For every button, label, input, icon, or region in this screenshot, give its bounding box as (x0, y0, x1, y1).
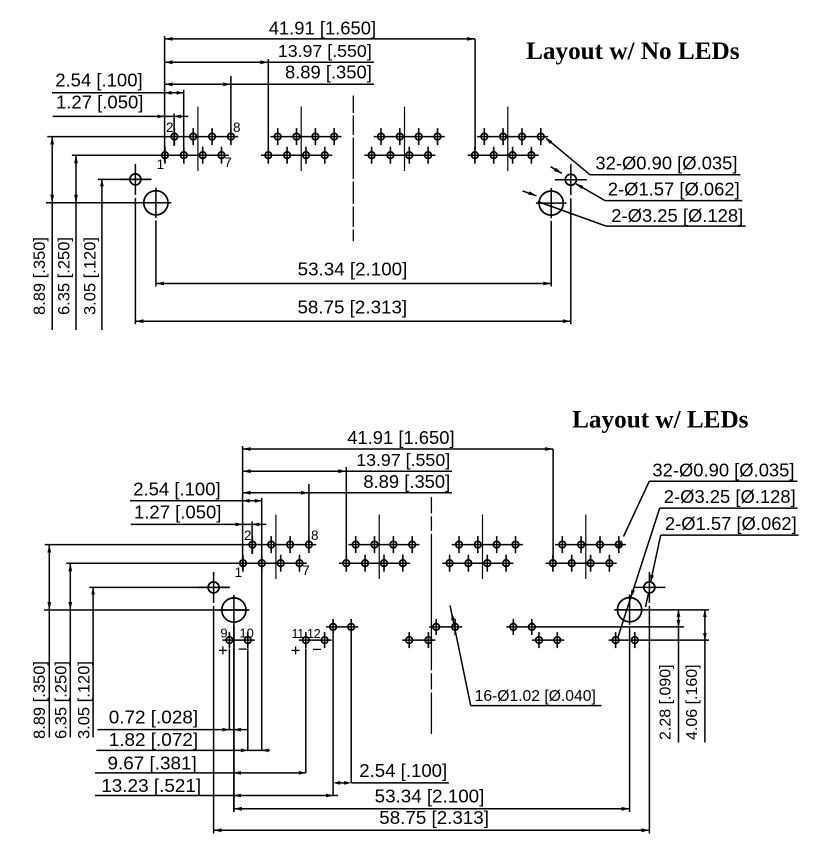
svg-text:2-Ø3.25 [Ø.128]: 2-Ø3.25 [Ø.128] (611, 205, 743, 226)
[LED] dim 8.89 [.350] vertical line left (47, 545, 51, 738)
[LED] ext padF-right column down (350, 635, 352, 783)
[LED] port 2 bottom pad row (pins 1,3,5,7) (339, 555, 410, 572)
[LED] LED pad pair low row #3 (402, 632, 435, 648)
svg-text:7: 7 (302, 563, 310, 578)
[LED] ext pad11 column down (305, 649, 307, 773)
svg-text:8.89 [.350]: 8.89 [.350] (363, 471, 450, 492)
svg-text:8.89 [.350]: 8.89 [.350] (31, 661, 49, 739)
[no-LED] port 1 top pad row (pins 2,4,6,8) (47, 128, 238, 145)
[LED] dim 13.97 [.550] line+arrows (243, 469, 452, 473)
[LED] ext padF-left column down (332, 635, 334, 796)
[no-LED] dim 58.75 [2.313] line+arrows (135, 319, 570, 323)
[no-LED] ext line pin2 column (173, 113, 175, 146)
svg-text:32-Ø0.90 [Ø.035]: 32-Ø0.90 [Ø.035] (595, 153, 737, 174)
[LED] LED pad pair high row #2 (429, 619, 462, 635)
svg-text:2.54 [.100]: 2.54 [.100] (359, 760, 447, 781)
svg-text:1.27 [.050]: 1.27 [.050] (134, 502, 221, 523)
svg-text:8: 8 (233, 120, 241, 135)
[no-LED] dim 53.34 [2.100] line+arrows (156, 282, 551, 286)
[no-LED] port 4 centerline (507, 107, 509, 172)
[no-LED] port 2 bottom pad row (pins 1,3,5,7) (261, 147, 332, 164)
svg-text:1.82 [.072]: 1.82 [.072] (109, 730, 198, 751)
[LED] large mounting hole O3.25 left (219, 595, 250, 625)
[no-LED] dim 1.27 [.050] line+arrows (53, 115, 189, 119)
svg-text:3.05 [.120]: 3.05 [.120] (76, 661, 94, 739)
[no-LED] port 3 centerline (404, 107, 406, 172)
[LED] ext pad9 column down (228, 649, 230, 730)
[no-LED] small mounting hole O1.57 left (119, 164, 151, 195)
[no-LED] drawing centerline (dashed) (352, 96, 354, 242)
[no-LED] dim 41.91 [1.650] line+arrows (165, 37, 476, 41)
svg-text:3.05 [.120]: 3.05 [.120] (82, 237, 100, 315)
svg-text:58.75 [2.313]: 58.75 [2.313] (297, 297, 407, 318)
svg-text:2: 2 (166, 120, 174, 135)
[no-LED] small-hole horizontal ext line left (98, 178, 152, 180)
[LED] ext small hole right column down (648, 606, 650, 834)
svg-text:2.28 [.090]: 2.28 [.090] (658, 664, 675, 740)
[LED] label 2-O1.57 leader (646, 535, 661, 607)
svg-text:2-Ø3.25 [Ø.128]: 2-Ø3.25 [Ø.128] (664, 486, 796, 507)
svg-text:13.23 [.521]: 13.23 [.521] (101, 776, 201, 797)
svg-text:2.54 [.100]: 2.54 [.100] (133, 479, 220, 500)
[no-LED] port 2 top pad row (pins 2,4,6,8) (270, 128, 341, 145)
[LED] big-hole horizontal ext line left (44, 609, 249, 611)
[LED] port 3 bottom pad row (pins 1,3,5,7) (442, 555, 513, 572)
[LED] small-hole horizontal ext line left (89, 586, 229, 588)
[LED] dim 2.54 [.100] bottom line+arrows (333, 781, 449, 785)
svg-text:9.67 [.381]: 9.67 [.381] (108, 754, 197, 775)
svg-text:1: 1 (157, 157, 165, 172)
[LED] ext big-hole-left column down (233, 625, 235, 812)
[LED] drawing centerline (dashed) (430, 497, 432, 734)
[no-LED] label 32-O0.90 leader (545, 137, 590, 174)
[no-LED] ext small hole right down (570, 198, 572, 324)
[no-LED] dim 13.97 [.550] line+arrows (165, 60, 374, 64)
svg-text:8: 8 (311, 528, 319, 543)
[no-LED] port 3 top pad row (pins 2,4,6,8) (374, 128, 445, 145)
[LED] ext line pin8 column port1 (308, 484, 310, 537)
[no-LED] dim 3.05 [.120] vertical line left (100, 179, 104, 330)
[no-LED] dim 2.54 [.100] line+arrows (52, 91, 184, 95)
svg-text:9: 9 (220, 626, 227, 641)
svg-text:0.72 [.028]: 0.72 [.028] (109, 708, 198, 729)
[no-LED] port 4 bottom pad row (pins 1,3,5,7) (468, 147, 539, 164)
[no-LED] dim 8.89 [.350] vertical line left (50, 137, 54, 330)
[LED] dim 1.82 [.072] line+arrows (96, 749, 270, 753)
svg-text:16-Ø1.02 [Ø.040]: 16-Ø1.02 [Ø.040] (475, 688, 596, 705)
[LED] dim 41.91 [1.650] line+arrows (243, 447, 553, 451)
[no-LED] ext big hole right down (550, 221, 552, 287)
[LED] small mounting hole O1.57 right (633, 572, 665, 603)
svg-text:2.54 [.100]: 2.54 [.100] (55, 70, 142, 91)
[LED] port 4 centerline (585, 515, 587, 580)
[no-LED] dim 6.35 [.250] vertical line left (74, 155, 78, 330)
[LED] LED pad pair low row #5 (609, 632, 709, 648)
[LED] port 4 top pad row (pins 2,4,6,8) (555, 536, 626, 553)
[no-LED] ext line pin8 column port1 (230, 76, 232, 129)
[LED] polarity - port2 (313, 648, 321, 650)
svg-text:1.27 [.050]: 1.27 [.050] (56, 92, 143, 113)
[LED] ext hole-center line right (614, 609, 709, 611)
svg-text:7: 7 (224, 155, 232, 170)
[LED] label 2-O1.57 text+underline (661, 513, 799, 535)
svg-text:53.34 [2.100]: 53.34 [2.100] (298, 258, 408, 279)
[LED] dim 1.27 [.050] line+arrows (131, 523, 267, 527)
[LED] LED pad pair high row #3 (506, 619, 684, 635)
[LED] LED pad pair low row #2 (299, 632, 332, 648)
[LED] label 32-O0.90 leader (617, 481, 649, 548)
[no-LED] small mounting hole O1.57 right (555, 164, 587, 195)
[no-LED] port 4 top pad row (pins 2,4,6,8) (477, 128, 548, 145)
[LED] label 2-O3.25 text+underline (660, 486, 798, 508)
svg-text:8.89 [.350]: 8.89 [.350] (285, 62, 372, 83)
svg-text:41.91 [1.650]: 41.91 [1.650] (269, 17, 376, 38)
[LED] LED pad pair low row #4 (532, 632, 564, 648)
[LED] dim 8.89 [.350] line+arrows (243, 491, 452, 495)
svg-text:8.89 [.350]: 8.89 [.350] (31, 237, 49, 315)
[LED] dim 58.75 [2.313] line+arrows (214, 828, 650, 832)
[LED] dim 9.67 [.381] line+arrows (95, 771, 306, 775)
[LED] dim 4.06 [.160] line+arrows (703, 610, 707, 743)
svg-text:6.35 [.250]: 6.35 [.250] (56, 237, 74, 315)
[LED] small mounting hole O1.57 left (198, 572, 230, 603)
svg-text:2-Ø1.57 [Ø.062]: 2-Ø1.57 [Ø.062] (608, 178, 740, 199)
[no-LED] ext line pin1 column port4 (474, 39, 476, 150)
[no-LED] label 2-O3.25 text+underline (606, 205, 746, 226)
[LED] polarity + port2 (292, 646, 300, 654)
[LED] port 1 bottom pad row (pins 1,3,5,7) (66, 555, 306, 572)
svg-text:Layout w/ LEDs: Layout w/ LEDs (572, 407, 749, 434)
[LED] ext line pin3 column (261, 498, 263, 751)
[LED] dim 3.05 [.120] vertical line left (91, 587, 95, 737)
svg-text:Layout w/ No LEDs: Layout w/ No LEDs (526, 38, 740, 65)
[no-LED] label 32-O0.90 text+underline (590, 153, 740, 175)
[LED] ext line pin1 column port4 (552, 449, 554, 558)
svg-text:2-Ø1.57 [Ø.062]: 2-Ø1.57 [Ø.062] (665, 513, 797, 534)
[LED] ext pad10 column down (247, 649, 249, 751)
svg-text:32-Ø0.90 [Ø.035]: 32-Ø0.90 [Ø.035] (652, 460, 794, 481)
[no-LED] large mounting hole O3.25 left (141, 188, 172, 218)
[no-LED] ext big hole left down (155, 221, 157, 287)
[LED] label 32-O0.90 text+underline (649, 460, 797, 482)
[LED] ext line pin1 column port2 (345, 467, 347, 558)
[LED] port 1 centerline (275, 515, 277, 580)
[LED] port 1 top pad row (pins 2,4,6,8) (45, 536, 317, 553)
[LED] ext small hole left column down (213, 606, 215, 834)
svg-text:58.75 [2.313]: 58.75 [2.313] (379, 807, 489, 828)
[LED] port 3 top pad row (pins 2,4,6,8) (452, 536, 523, 553)
svg-text:4.06 [.160]: 4.06 [.160] (684, 664, 701, 740)
[LED] LED pad pair low row #1 (222, 632, 254, 648)
svg-text:10: 10 (239, 626, 253, 641)
svg-text:1: 1 (235, 565, 243, 580)
[LED] dim 6.35 [.250] vertical line left (68, 563, 72, 737)
[LED] dim 0.72 [.028] line+arrows (98, 728, 249, 732)
[no-LED] ext line pin1 column port1 (164, 36, 166, 162)
svg-text:13.97 [.550]: 13.97 [.550] (278, 41, 372, 61)
[LED] dim 2.54 [.100] line+arrows (130, 499, 262, 503)
[no-LED] ext line pin1 column port2 (267, 59, 269, 150)
[LED] port 3 centerline (482, 515, 484, 580)
[no-LED] ext small hole left down (134, 198, 136, 324)
svg-text:53.34 [2.100]: 53.34 [2.100] (375, 785, 485, 806)
svg-text:13.97 [.550]: 13.97 [.550] (356, 450, 450, 470)
[no-LED] label 2-O1.57 text+underline (605, 178, 742, 200)
[no-LED] ext line pin3 column (183, 90, 185, 147)
[no-LED] port 1 centerline (197, 107, 199, 172)
[LED] port 2 top pad row (pins 2,4,6,8) (348, 536, 419, 553)
[no-LED] port 3 bottom pad row (pins 1,3,5,7) (364, 147, 435, 164)
[LED] port 4 bottom pad row (pins 1,3,5,7) (546, 555, 617, 572)
[LED] label 16-O1.02 text+underline (471, 688, 602, 705)
[LED] ext big hole left column to 53.34 (233, 625, 235, 812)
[LED] LED pad pair high row #1 (326, 619, 358, 635)
[no-LED] port 2 centerline (300, 107, 302, 172)
[LED] polarity - port1 (239, 648, 247, 650)
svg-text:6.35 [.250]: 6.35 [.250] (53, 661, 71, 739)
[no-LED] label 2-O1.57 leader (551, 167, 605, 201)
[no-LED] big-hole horizontal ext line left (46, 202, 171, 204)
[no-LED] dim 8.89 [.350] line+arrows (165, 82, 374, 86)
[LED] ext line pin2 column (251, 521, 253, 554)
[LED] port 2 centerline (378, 515, 380, 580)
[LED] dim 53.34 [2.100] line+arrows (234, 807, 630, 811)
[no-LED] port 1 bottom pad row (pins 1,3,5,7) (72, 147, 229, 164)
[LED] dim 13.23 [.521] line+arrows (95, 794, 338, 798)
svg-text:41.91 [1.650]: 41.91 [1.650] (347, 427, 454, 448)
[LED] large mounting hole O3.25 right (614, 595, 645, 625)
[LED] ext big hole right column down (629, 628, 631, 812)
[LED] ext line pin1 column port1 (242, 446, 244, 570)
[LED] label 16-O1.02 leader (450, 605, 471, 705)
[LED] dim 2.28 [.090] line+arrows (677, 610, 681, 743)
[no-LED] large mounting hole O3.25 right (536, 188, 567, 218)
svg-text:11,12: 11,12 (292, 627, 321, 641)
svg-text:2: 2 (244, 528, 252, 543)
[LED] label 2-O3.25 leader (618, 508, 660, 637)
[no-LED] label 2-O3.25 leader (523, 191, 607, 226)
[LED] polarity + port1 (219, 646, 227, 654)
